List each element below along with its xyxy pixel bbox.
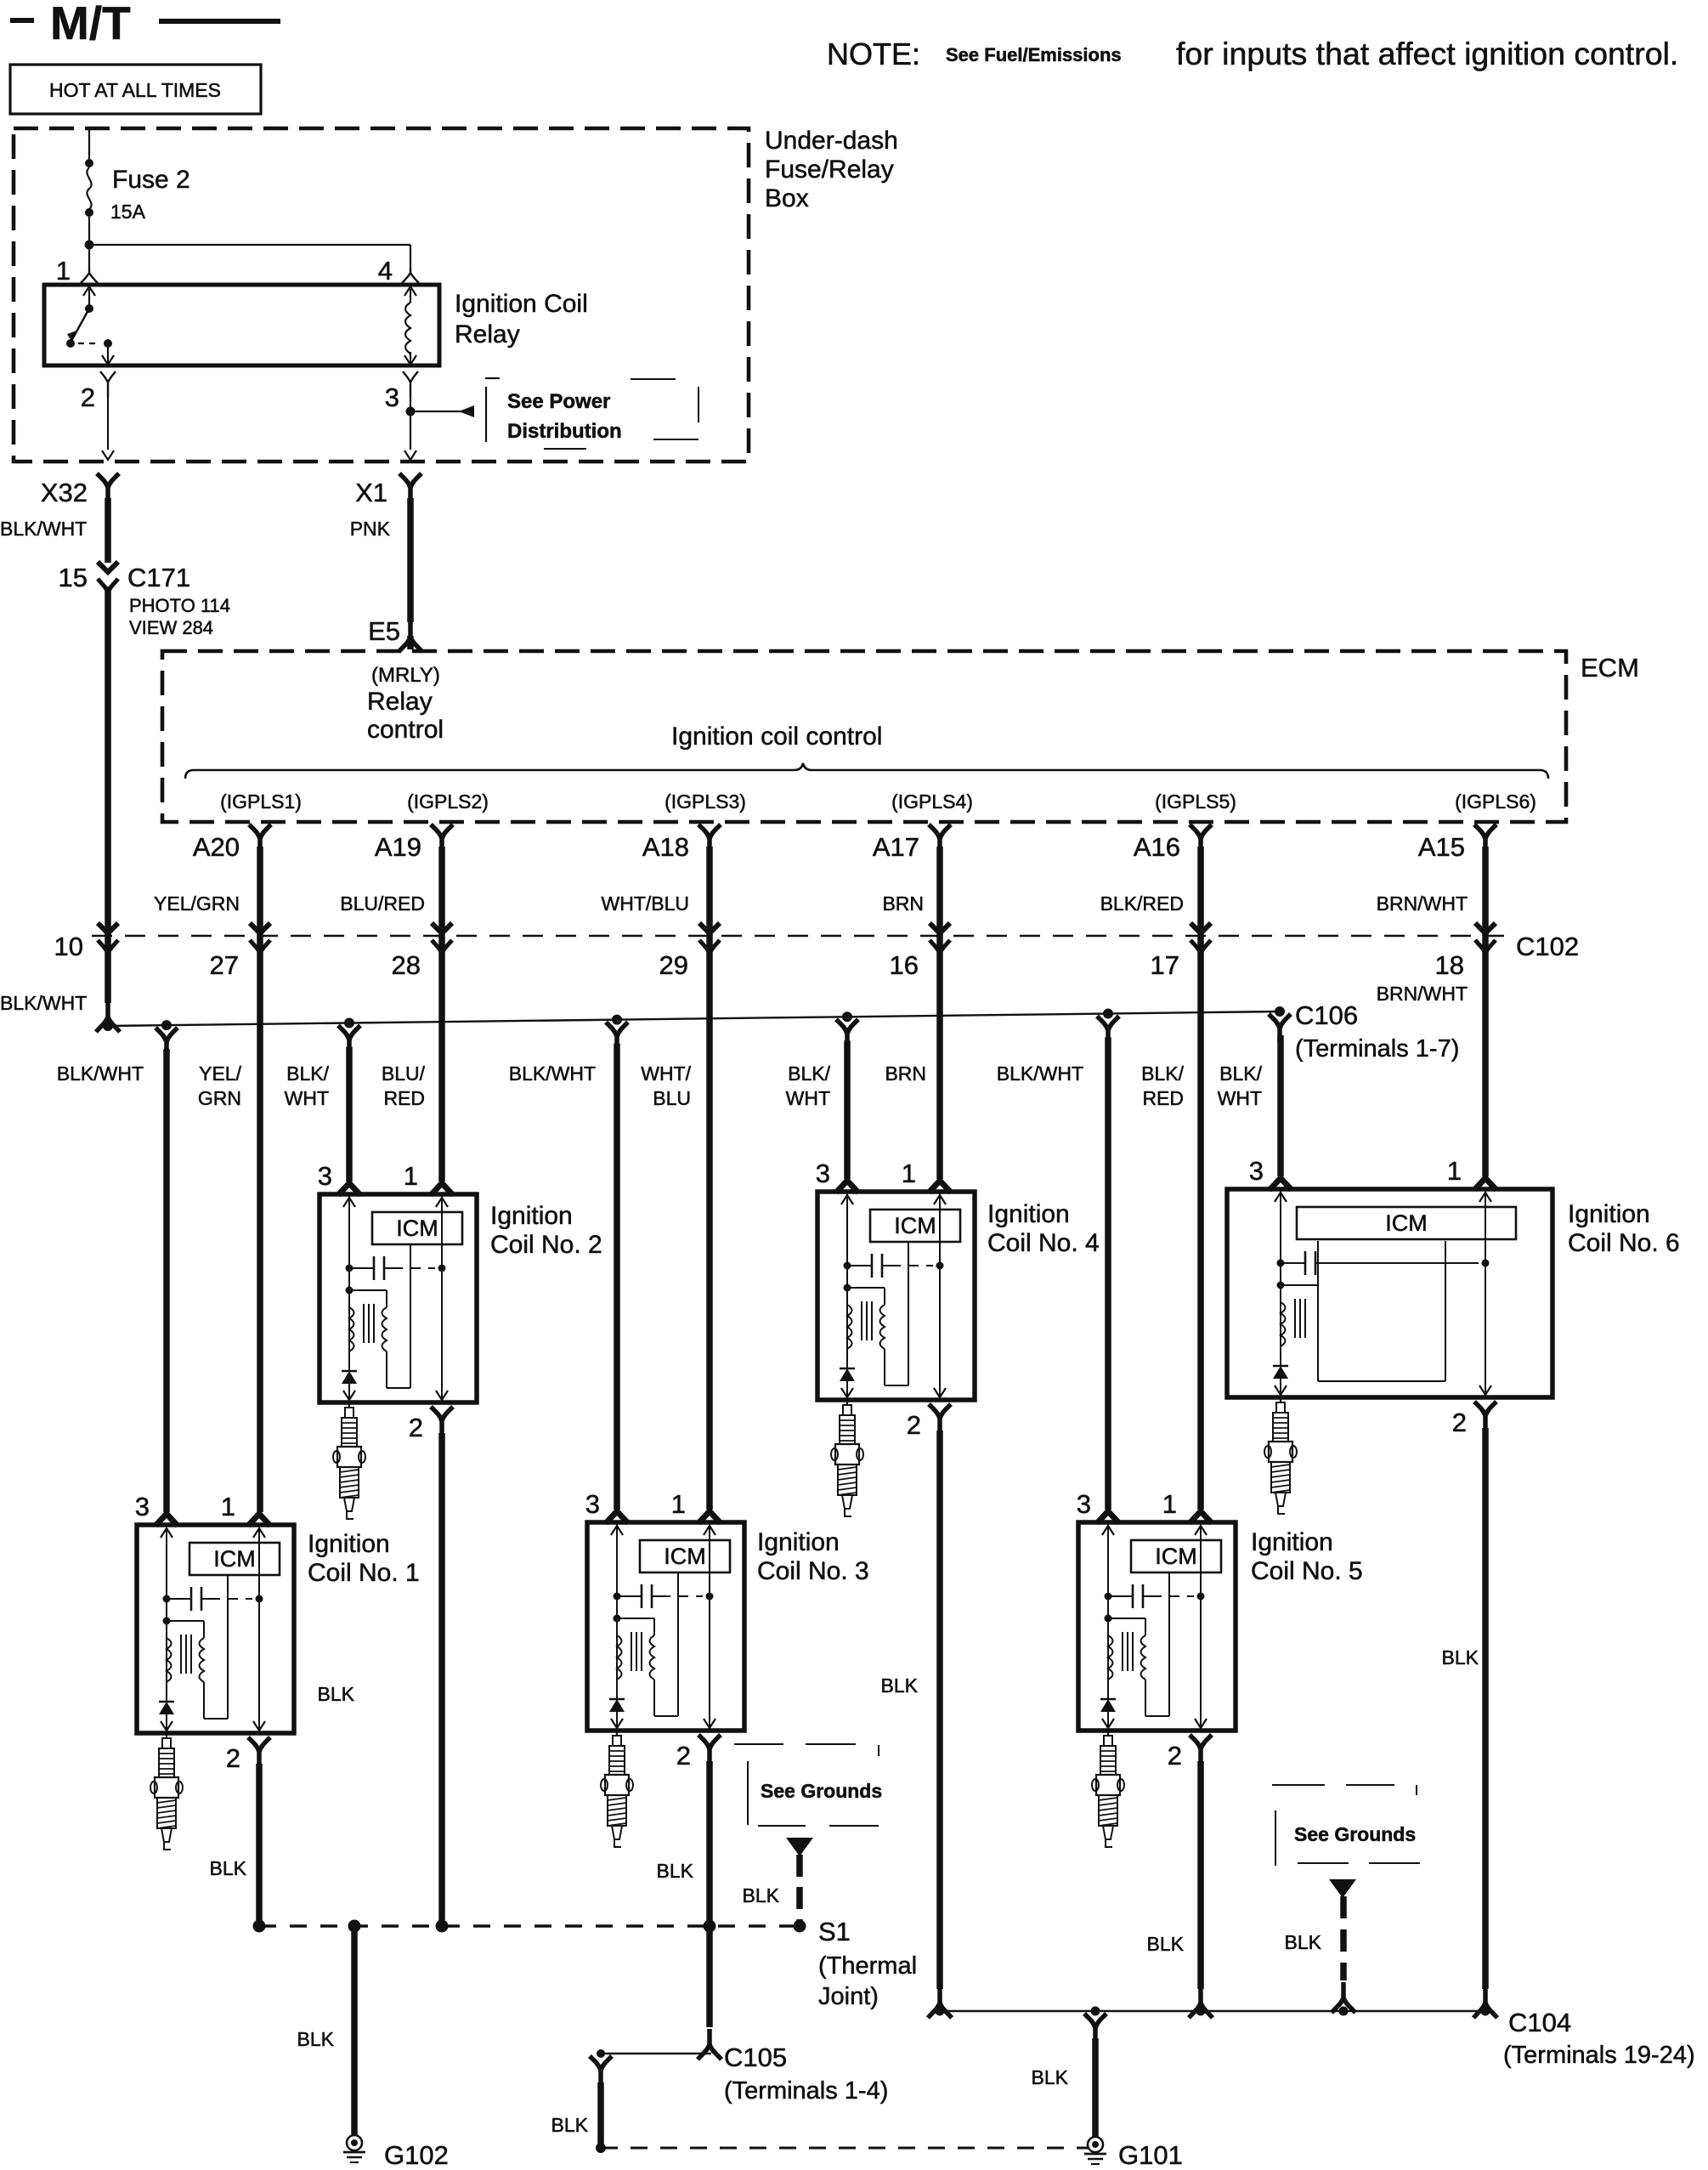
svg-text:BRN/WHT: BRN/WHT (1377, 983, 1468, 1005)
svg-text:ECM: ECM (1581, 653, 1639, 683)
svg-text:BLK/: BLK/ (788, 1062, 830, 1085)
svg-text:3: 3 (1249, 1156, 1264, 1186)
svg-text:WHT: WHT (786, 1087, 830, 1109)
svg-text:2: 2 (409, 1413, 423, 1442)
svg-text:ICM: ICM (213, 1546, 256, 1572)
svg-text:Coil No. 6: Coil No. 6 (1568, 1229, 1680, 1257)
svg-text:(Terminals 19-24): (Terminals 19-24) (1503, 2042, 1695, 2069)
svg-text:BLK: BLK (1032, 2066, 1069, 2088)
svg-text:G102: G102 (384, 2140, 449, 2170)
svg-text:2: 2 (907, 1410, 921, 1440)
svg-text:17: 17 (1151, 950, 1179, 980)
svg-text:BLU: BLU (653, 1087, 691, 1109)
svg-text:BLK/WHT: BLK/WHT (0, 518, 87, 540)
svg-text:Ignition: Ignition (987, 1200, 1070, 1228)
svg-text:(IGPLS2): (IGPLS2) (407, 790, 489, 813)
svg-text:C105: C105 (724, 2043, 787, 2072)
svg-text:Fuse/Relay: Fuse/Relay (765, 156, 894, 184)
svg-text:BLK/: BLK/ (286, 1062, 329, 1085)
svg-text:Coil No. 4: Coil No. 4 (987, 1229, 1100, 1257)
svg-text:A16: A16 (1134, 832, 1180, 862)
svg-text:X32: X32 (41, 478, 88, 507)
svg-text:See Fuel/Emissions: See Fuel/Emissions (946, 44, 1122, 65)
svg-text:WHT: WHT (1218, 1087, 1262, 1109)
svg-text:BLK/: BLK/ (1219, 1062, 1262, 1085)
svg-text:(IGPLS5): (IGPLS5) (1155, 790, 1236, 813)
svg-text:BLK/: BLK/ (1141, 1062, 1184, 1085)
svg-text:2: 2 (1452, 1408, 1467, 1437)
svg-text:3: 3 (385, 382, 399, 412)
svg-text:BLK: BLK (1442, 1646, 1479, 1669)
svg-text:BLK: BLK (318, 1683, 355, 1705)
svg-text:Ignition: Ignition (1251, 1528, 1333, 1556)
svg-text:(Terminals 1-7): (Terminals 1-7) (1295, 1035, 1459, 1062)
svg-text:Under-dash: Under-dash (765, 127, 898, 155)
svg-text:BLK/WHT: BLK/WHT (57, 1062, 144, 1085)
svg-text:A17: A17 (873, 832, 919, 862)
svg-text:RED: RED (1142, 1087, 1184, 1109)
svg-text:Relay: Relay (455, 320, 520, 348)
svg-text:for inputs that affect ignitio: for inputs that affect ignition control. (1176, 36, 1678, 71)
svg-text:3: 3 (135, 1492, 150, 1521)
svg-text:GRN: GRN (198, 1087, 241, 1109)
svg-text:HOT AT ALL TIMES: HOT AT ALL TIMES (49, 79, 221, 101)
svg-text:ICM: ICM (1155, 1544, 1197, 1569)
svg-text:1: 1 (404, 1161, 418, 1191)
svg-text:X1: X1 (355, 478, 387, 507)
svg-text:BRN: BRN (882, 892, 924, 915)
svg-text:3: 3 (318, 1161, 332, 1191)
svg-text:BLK/WHT: BLK/WHT (509, 1062, 596, 1085)
svg-text:YEL/GRN: YEL/GRN (154, 892, 240, 915)
svg-text:4: 4 (378, 256, 393, 286)
svg-text:RED: RED (383, 1087, 425, 1109)
svg-text:Distribution: Distribution (507, 420, 622, 443)
svg-text:1: 1 (56, 256, 71, 286)
svg-text:C106: C106 (1295, 1000, 1358, 1030)
svg-text:15: 15 (59, 563, 88, 592)
svg-text:(IGPLS3): (IGPLS3) (665, 790, 746, 813)
svg-text:Fuse 2: Fuse 2 (112, 166, 190, 194)
svg-text:29: 29 (659, 950, 688, 980)
svg-text:Joint): Joint) (818, 1983, 879, 2010)
svg-text:Coil No. 2: Coil No. 2 (490, 1231, 602, 1259)
svg-text:2: 2 (1168, 1741, 1182, 1771)
svg-text:BLK: BLK (743, 1884, 780, 1907)
svg-text:Ignition: Ignition (490, 1202, 573, 1230)
svg-text:S1: S1 (818, 1917, 851, 1946)
svg-text:BLK: BLK (1285, 1931, 1322, 1953)
svg-text:BLK: BLK (210, 1857, 247, 1879)
svg-text:1: 1 (221, 1492, 235, 1521)
svg-text:Relay: Relay (367, 688, 433, 716)
svg-text:VIEW 284: VIEW 284 (129, 617, 213, 638)
svg-text:M/T: M/T (50, 0, 131, 49)
svg-text:ICM: ICM (664, 1544, 706, 1569)
svg-text:(Terminals 1-4): (Terminals 1-4) (724, 2077, 888, 2105)
svg-text:A18: A18 (642, 832, 689, 862)
svg-text:WHT: WHT (285, 1087, 329, 1109)
svg-text:BLK: BLK (881, 1674, 919, 1697)
svg-text:16: 16 (890, 950, 919, 980)
svg-text:(MRLY): (MRLY) (371, 664, 440, 687)
svg-text:Ignition: Ignition (757, 1528, 840, 1556)
svg-text:G101: G101 (1118, 2140, 1183, 2170)
svg-text:ICM: ICM (1385, 1210, 1428, 1236)
svg-text:C102: C102 (1516, 932, 1579, 961)
svg-text:Box: Box (765, 184, 809, 212)
svg-text:See Power: See Power (507, 390, 610, 413)
svg-text:A20: A20 (193, 832, 240, 862)
svg-text:BLK: BLK (1147, 1933, 1185, 1955)
svg-text:E5: E5 (368, 616, 400, 646)
svg-text:BRN: BRN (885, 1062, 926, 1085)
svg-text:ICM: ICM (894, 1213, 936, 1238)
svg-text:BLK: BLK (657, 1860, 694, 1882)
svg-text:BLK: BLK (297, 2028, 335, 2050)
svg-text:1: 1 (1162, 1489, 1177, 1519)
svg-text:BLK/WHT: BLK/WHT (997, 1062, 1083, 1085)
svg-text:28: 28 (392, 950, 421, 980)
svg-text:ICM: ICM (396, 1215, 438, 1241)
svg-text:YEL/: YEL/ (199, 1062, 241, 1085)
svg-text:3: 3 (816, 1159, 830, 1188)
svg-text:3: 3 (585, 1489, 600, 1519)
svg-text:WHT/: WHT/ (641, 1062, 691, 1085)
svg-text:C104: C104 (1508, 2008, 1571, 2037)
svg-text:NOTE:: NOTE: (827, 37, 920, 71)
svg-text:BLK/WHT: BLK/WHT (0, 992, 87, 1014)
svg-text:WHT/BLU: WHT/BLU (602, 892, 690, 915)
svg-text:A19: A19 (375, 832, 421, 862)
svg-text:BLU/RED: BLU/RED (340, 892, 425, 915)
svg-text:BLK: BLK (551, 2114, 589, 2136)
svg-text:control: control (367, 716, 444, 744)
svg-text:See Grounds: See Grounds (1294, 1823, 1416, 1845)
svg-text:(Thermal: (Thermal (818, 1952, 917, 1980)
svg-text:BLU/: BLU/ (382, 1062, 426, 1085)
svg-text:(IGPLS1): (IGPLS1) (220, 790, 302, 813)
svg-text:PHOTO 114: PHOTO 114 (129, 595, 230, 616)
svg-text:BRN/WHT: BRN/WHT (1377, 892, 1468, 915)
svg-text:3: 3 (1077, 1489, 1091, 1519)
svg-text:Ignition Coil: Ignition Coil (455, 290, 588, 318)
svg-text:(IGPLS6): (IGPLS6) (1455, 790, 1536, 813)
svg-text:2: 2 (226, 1743, 240, 1773)
svg-text:Coil No. 1: Coil No. 1 (308, 1559, 420, 1587)
svg-text:1: 1 (902, 1159, 916, 1188)
svg-text:BLK/RED: BLK/RED (1100, 892, 1184, 915)
svg-text:C171: C171 (127, 563, 190, 592)
svg-text:10: 10 (54, 932, 83, 961)
svg-text:18: 18 (1435, 950, 1464, 980)
svg-text:1: 1 (671, 1489, 686, 1519)
svg-text:15A: 15A (110, 201, 146, 223)
svg-text:Ignition: Ignition (1568, 1200, 1650, 1228)
svg-text:See Grounds: See Grounds (761, 1780, 882, 1802)
svg-text:Ignition coil control: Ignition coil control (671, 722, 882, 751)
svg-text:PNK: PNK (350, 518, 391, 540)
svg-text:1: 1 (1447, 1156, 1462, 1186)
svg-text:A15: A15 (1418, 832, 1465, 862)
svg-text:27: 27 (210, 950, 239, 980)
svg-text:(IGPLS4): (IGPLS4) (891, 790, 973, 813)
svg-text:2: 2 (676, 1741, 691, 1771)
svg-text:Ignition: Ignition (308, 1530, 390, 1558)
svg-text:Coil No. 3: Coil No. 3 (757, 1557, 869, 1585)
svg-text:2: 2 (81, 382, 95, 412)
svg-text:Coil No. 5: Coil No. 5 (1251, 1557, 1363, 1585)
